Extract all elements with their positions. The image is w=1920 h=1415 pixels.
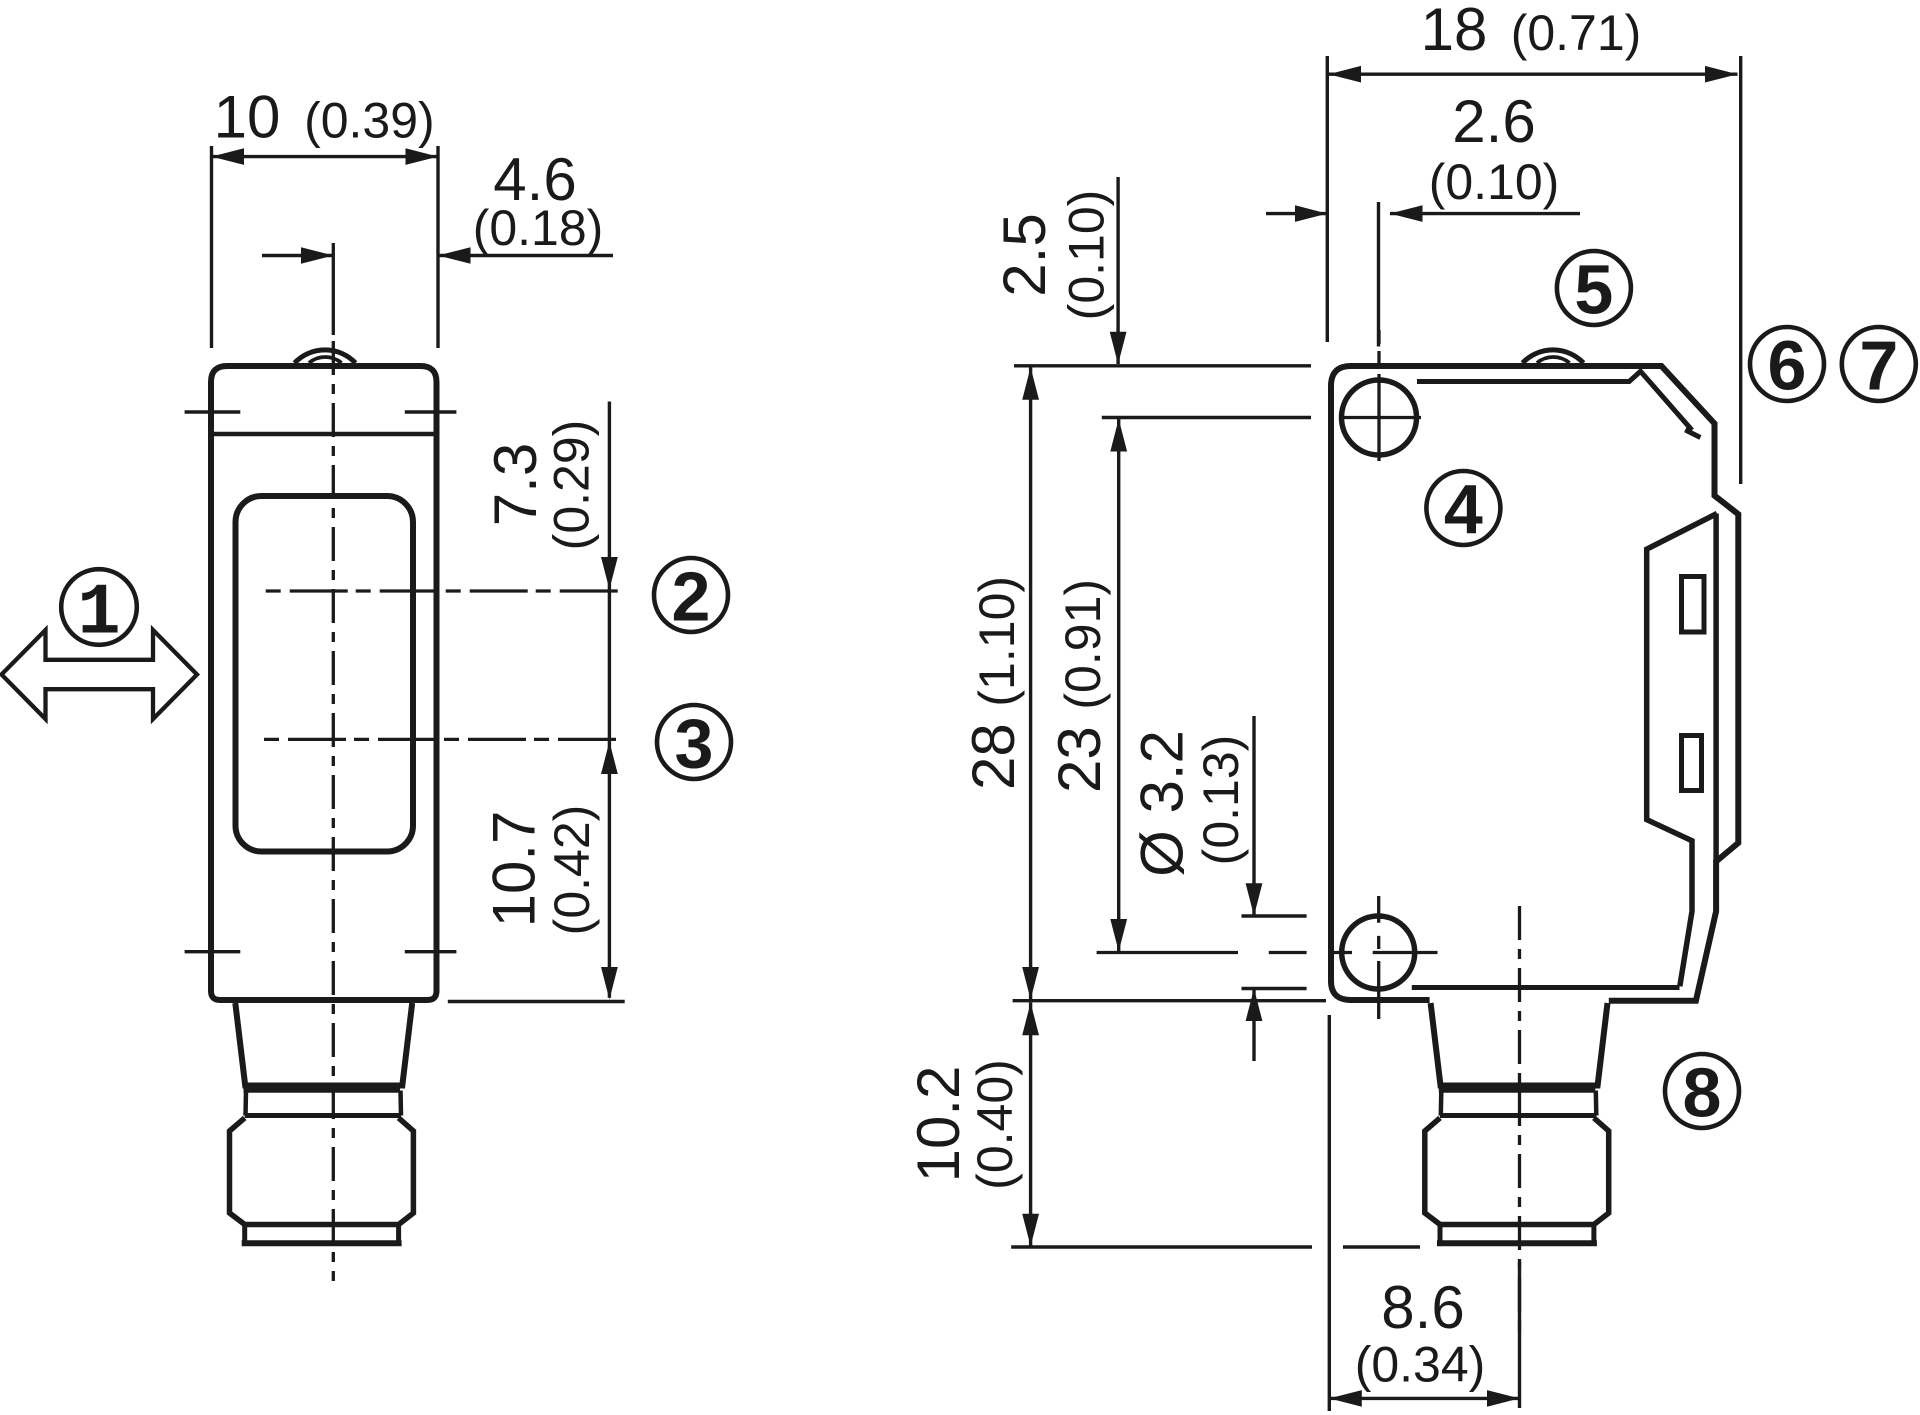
dimension text 10 (0.39) bbox=[214, 84, 435, 151]
dimension 10.2 vertical line with arrows bbox=[1022, 1003, 1039, 1247]
cap parting line (front view) bbox=[211, 432, 437, 437]
svg-text:(0.10): (0.10) bbox=[1058, 190, 1114, 321]
svg-text:(0.18): (0.18) bbox=[473, 200, 604, 256]
marker circle 4 bbox=[1426, 471, 1500, 549]
dimension text 2.5 (0.10) rotated bbox=[991, 190, 1114, 321]
svg-text:(0.13): (0.13) bbox=[1193, 735, 1249, 866]
connector ring band (front view) bbox=[244, 1091, 402, 1116]
lower side tick marks (front view) bbox=[185, 950, 457, 953]
receiver axis dash-dot line bbox=[264, 738, 623, 741]
svg-text:8.6: 8.6 bbox=[1381, 1274, 1464, 1341]
dimension text 10.7 (0.42) rotated bbox=[481, 805, 600, 936]
svg-text:4: 4 bbox=[1444, 471, 1483, 549]
connector bottom extension line bbox=[1011, 1245, 1420, 1248]
dome on top (front view) bbox=[295, 350, 356, 363]
svg-text:8: 8 bbox=[1683, 1054, 1722, 1132]
svg-text:Ø 3.2: Ø 3.2 bbox=[1129, 730, 1196, 877]
body top edge extension line bbox=[1014, 364, 1311, 367]
connector hex nut (side view) bbox=[1425, 1118, 1609, 1225]
dimension text 28 (1.10) rotated bbox=[960, 576, 1027, 790]
connector skirt (side view) bbox=[1437, 1225, 1597, 1244]
dimension 2.6 line with arrows bbox=[1266, 205, 1580, 222]
upper side tick marks (front view) bbox=[185, 410, 457, 413]
dimension 7.3 / 10.7 vertical line with arrows bbox=[601, 402, 618, 1000]
svg-text:(0.39): (0.39) bbox=[304, 93, 435, 149]
marker circle 3 bbox=[657, 705, 731, 783]
svg-text:(0.29): (0.29) bbox=[544, 420, 600, 551]
clip window upper bbox=[1682, 577, 1705, 633]
bracket bottom extension line bbox=[1013, 999, 1326, 1002]
dimension 8.6 line with arrows bbox=[1329, 1390, 1519, 1407]
svg-text:(0.42): (0.42) bbox=[544, 805, 600, 936]
dimension 3.2 vertical line with arrows bbox=[1246, 716, 1263, 1061]
dimension text 23 (0.91) rotated bbox=[1046, 579, 1113, 793]
marker circle 5 bbox=[1557, 251, 1631, 329]
dimension 2.5 vertical line with arrow bbox=[1110, 177, 1127, 364]
dimension 10 (0.39) extension lines bbox=[212, 146, 439, 348]
mounting hole top bbox=[1342, 380, 1417, 455]
dimension text 8.6 (0.34) bbox=[1355, 1274, 1486, 1393]
mounting clip plate (side view) bbox=[1647, 514, 1717, 987]
top step inner line and chamfer band (side view) bbox=[1417, 371, 1700, 437]
marker circle 8 bbox=[1665, 1054, 1739, 1132]
svg-text:10.2: 10.2 bbox=[905, 1066, 972, 1183]
dimension 8.6 extension lines bbox=[1329, 1015, 1519, 1411]
marker circle 6 bbox=[1750, 327, 1824, 405]
sensor body outline (front view) bbox=[211, 366, 437, 1000]
connector centerline (side view) bbox=[1518, 906, 1521, 1340]
mounting hole bottom bbox=[1342, 916, 1415, 989]
dimension 10 (0.39) line with arrows bbox=[212, 148, 439, 165]
svg-text:7.3: 7.3 bbox=[482, 443, 549, 526]
svg-text:2.5: 2.5 bbox=[991, 213, 1058, 296]
svg-text:10.7: 10.7 bbox=[481, 811, 548, 928]
svg-text:10: 10 bbox=[214, 84, 281, 151]
hole tangent extension lines bbox=[1242, 916, 1307, 989]
dimension text 18 (0.71) bbox=[1421, 0, 1642, 63]
dome on top (side view) bbox=[1523, 350, 1584, 363]
mounting hole bottom crosshair bbox=[1097, 896, 1438, 1019]
svg-text:23 (0.91): 23 (0.91) bbox=[1046, 579, 1113, 793]
connector ring band (side view) bbox=[1439, 1091, 1597, 1116]
connector skirt (front view) bbox=[242, 1225, 402, 1244]
dimension text 7.3 (0.29) rotated bbox=[482, 420, 600, 551]
marker circle 7 bbox=[1842, 327, 1916, 405]
svg-text:7: 7 bbox=[1859, 327, 1898, 405]
connector trapezoid (front view) bbox=[235, 1003, 412, 1086]
dimension 4.6 (0.18) line with arrows bbox=[262, 247, 613, 264]
svg-text:28 (1.10): 28 (1.10) bbox=[960, 576, 1027, 790]
svg-text:(0.71): (0.71) bbox=[1511, 5, 1642, 61]
marker circle 2 bbox=[654, 558, 728, 636]
hole center extension line vertical bbox=[1377, 202, 1380, 347]
svg-text:5: 5 bbox=[1574, 251, 1613, 329]
dimension text diameter 3.2 (0.13) rotated bbox=[1129, 730, 1249, 877]
emitter axis dash-dot line bbox=[266, 589, 622, 592]
top hole center extension line bbox=[1102, 416, 1311, 419]
dimension text 4.6 (0.18) bbox=[473, 146, 604, 256]
dimension 18 (0.71) extension lines bbox=[1327, 56, 1740, 484]
svg-text:2: 2 bbox=[672, 558, 711, 636]
svg-text:(0.34): (0.34) bbox=[1355, 1337, 1486, 1393]
dimension text 10.2 (0.40) rotated bbox=[905, 1059, 1023, 1190]
svg-text:(0.10): (0.10) bbox=[1429, 154, 1560, 210]
lens window (front view) bbox=[236, 496, 414, 852]
clip plate bottom edge bbox=[1412, 985, 1680, 990]
dimension 23 vertical line with arrows bbox=[1110, 419, 1127, 952]
double-headed arrow symbol bbox=[2, 630, 198, 719]
sensor body outline (side view) bbox=[1331, 366, 1738, 1001]
svg-text:2.6: 2.6 bbox=[1452, 88, 1535, 155]
svg-text:(0.40): (0.40) bbox=[967, 1059, 1023, 1190]
body bottom extension line bbox=[448, 1000, 625, 1003]
clip window lower bbox=[1682, 736, 1702, 791]
dimension 18 (0.71) line with arrows bbox=[1329, 66, 1738, 83]
dimension text 2.6 (0.10) bbox=[1429, 88, 1560, 210]
dimension 28 vertical line with arrows bbox=[1022, 367, 1039, 1000]
svg-text:3: 3 bbox=[675, 705, 714, 783]
connector trapezoid (side view) bbox=[1431, 1003, 1608, 1086]
connector hex nut (front view) bbox=[230, 1118, 414, 1225]
svg-text:6: 6 bbox=[1768, 327, 1807, 405]
svg-text:1: 1 bbox=[77, 573, 120, 655]
optical axis centerline (front view) bbox=[332, 243, 335, 1281]
svg-text:18: 18 bbox=[1421, 0, 1488, 63]
mounting hole top crosshair bbox=[1341, 330, 1421, 461]
marker circle 1 bbox=[61, 569, 137, 654]
